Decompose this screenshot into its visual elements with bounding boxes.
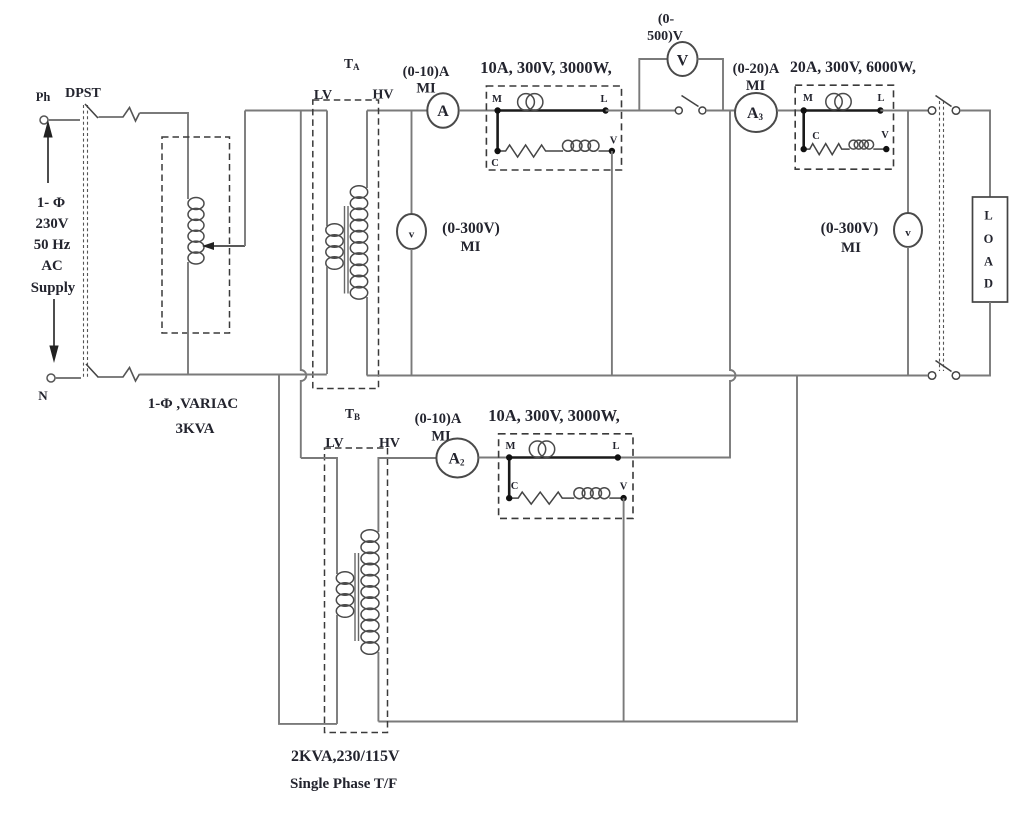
wattmeter W3 inductor to V wire (609, 497, 623, 499)
svg-text:AC: AC (41, 258, 62, 274)
TB LV winding (336, 572, 353, 618)
wattmeter W2 pressure-circuit resistor (804, 144, 850, 155)
wire voltmeter V3 riser bottom (907, 247, 909, 376)
wire TA HV bottom lead to secondary bus (366, 297, 368, 376)
svg-text:3KVA: 3KVA (176, 421, 215, 437)
wire V2 left leg (639, 59, 667, 111)
wire Ph terminal to DPST (48, 119, 80, 121)
switch DPST load-side top contacts (928, 107, 960, 115)
wattmeter W2 current coil M-L line (804, 109, 881, 112)
svg-text:(0-300V): (0-300V) (821, 220, 879, 237)
switch DPST load-side coupling dashed link (940, 101, 944, 371)
TA LV winding (326, 224, 343, 270)
wattmeter W3 dashed enclosure (499, 434, 633, 519)
svg-text:(0-: (0- (658, 12, 675, 27)
arrow down (supply neutral) (50, 299, 58, 361)
wire ammeter A2 to wattmeter W3 M (478, 457, 509, 459)
wire DPST to variac top (140, 113, 189, 199)
svg-text:v: v (905, 227, 911, 239)
voltmeter V1 label (442, 220, 500, 255)
svg-text:Ph: Ph (36, 90, 51, 104)
wattmeter W2 terminal letters (803, 93, 889, 142)
wattmeter W2 inductor to V wire (873, 148, 886, 150)
wire top bus: wiper node to TA LV (245, 110, 327, 112)
transformer TA dashed enclosure (313, 100, 379, 389)
load letters (984, 209, 994, 291)
supply terminal N (38, 374, 55, 403)
svg-text:M: M (803, 93, 813, 104)
wire TA LV bottom lead to neutral bus (326, 267, 328, 374)
TB HV winding (361, 530, 379, 655)
wattmeter W1 pressure coil inductor (563, 140, 600, 151)
supply label 1-Φ 230V 50Hz AC Supply (31, 195, 76, 296)
wire TB HV top lead to ammeter A2 (378, 458, 436, 532)
arrow up (supply phase) (44, 122, 52, 183)
wire switch S2 to ammeter A3 (706, 110, 735, 112)
svg-text:(0-10)A: (0-10)A (415, 411, 462, 427)
svg-text:(0-20)A: (0-20)A (733, 61, 780, 77)
svg-text:N: N (38, 388, 48, 403)
switch DPST coupling dashed link (84, 105, 88, 377)
switch DPST load-side bottom contacts (928, 372, 960, 380)
wire riser neutral bus down to TB LV return (279, 375, 337, 724)
wattmeter W3 terminal dots M L C V (506, 454, 627, 501)
wire neutral bus (N to TA LV) (140, 374, 327, 376)
voltmeter V2 label (0-500)V (647, 12, 683, 44)
wattmeter W3 pressure-circuit resistor (509, 492, 574, 504)
wattmeter W1 current coil loops (518, 94, 543, 111)
wattmeter W3 current coil loops (529, 441, 554, 457)
svg-text:230V: 230V (36, 216, 69, 232)
wire variac wiper to top bus (244, 111, 246, 247)
svg-text:MI: MI (841, 240, 861, 256)
svg-text:C: C (491, 158, 499, 169)
svg-text:M: M (506, 441, 516, 452)
wire voltmeter V1 riser bottom to secondary bus (411, 249, 413, 376)
variac winding coil (188, 198, 204, 265)
svg-text:D: D (984, 277, 993, 291)
wire TB HV return line (378, 376, 797, 722)
wire voltmeter V3 riser top (907, 111, 909, 214)
svg-text:10A, 300V, 3000W,: 10A, 300V, 3000W, (488, 406, 620, 425)
svg-text:L: L (984, 209, 992, 223)
svg-text:V: V (881, 130, 889, 141)
svg-text:MI: MI (746, 78, 766, 94)
wire W1 V terminal riser to secondary bus (611, 151, 613, 376)
svg-text:Single Phase T/F: Single Phase T/F (290, 776, 397, 792)
fuse squiggle (neutral) (99, 368, 140, 382)
svg-text:500)V: 500)V (647, 29, 683, 44)
fuse squiggle (phase) (99, 108, 140, 122)
wire voltmeter V1 riser top (411, 111, 413, 215)
svg-text:10A, 300V, 3000W,: 10A, 300V, 3000W, (480, 58, 612, 77)
wattmeter W3 terminal letters (506, 441, 628, 493)
svg-text:50 Hz: 50 Hz (34, 237, 71, 253)
wattmeter W2 dashed enclosure (795, 85, 893, 169)
TB core (355, 553, 359, 641)
wattmeter W2 pressure coil inductor (849, 140, 874, 149)
svg-text:A: A (437, 103, 449, 120)
ammeter A2 (MI) (436, 439, 478, 478)
svg-text:O: O (984, 232, 994, 246)
svg-text:LV: LV (314, 88, 332, 103)
transformer TB dashed enclosure (325, 448, 388, 733)
svg-text:v: v (409, 229, 415, 241)
voltmeter V3 (0-300V MI) (894, 213, 922, 247)
svg-text:C: C (812, 131, 820, 142)
wire W3 V terminal riser to TB HV return (623, 498, 625, 721)
wattmeter W1 pressure-circuit resistor (498, 145, 563, 157)
svg-text:V: V (677, 53, 689, 70)
switch DPST load-side bottom blade (936, 361, 952, 372)
wire V2 right leg (698, 59, 724, 111)
TA HV winding (350, 186, 367, 299)
voltmeter V2 (0-500V) (668, 42, 698, 76)
voltmeter V1 (0-300V MI) (397, 214, 426, 249)
variac dashed enclosure (162, 137, 230, 333)
wattmeter W3 M-C link (508, 458, 511, 499)
svg-text:Supply: Supply (31, 280, 76, 296)
svg-text:2KVA,230/115V: 2KVA,230/115V (291, 748, 400, 765)
wattmeter W2 terminal dots M L C V (801, 107, 890, 152)
wire W1 L to switch S2 (606, 110, 676, 112)
svg-text:MI: MI (461, 239, 481, 255)
wire load bottom to switch (960, 302, 990, 376)
svg-text:(0-10)A: (0-10)A (403, 64, 450, 80)
wire TA HV to ammeter A (367, 110, 427, 112)
variac label 1-Φ VARIAC 3KVA (148, 396, 239, 437)
ammeter A3 label (0-20)A MI (733, 61, 780, 94)
TB rating label 2KVA,230/115V Single Phase T/F (290, 748, 400, 792)
wattmeter W1 current coil M-L line (498, 109, 606, 112)
svg-text:1- Φ: 1- Φ (37, 195, 65, 211)
wattmeter W2 M-C link (802, 111, 805, 150)
wire TB HV bottom lead (377, 652, 379, 722)
wire TA HV top lead (366, 111, 368, 189)
supply terminal Ph (36, 90, 51, 124)
variac wiper arrow (202, 242, 245, 250)
wire TB LV bottom lead (336, 615, 338, 724)
svg-text:V: V (610, 136, 618, 147)
svg-text:C: C (511, 481, 519, 492)
svg-text:A: A (984, 255, 993, 269)
svg-text:V: V (620, 482, 628, 493)
switch DPST blade (neutral pole) (86, 364, 99, 378)
wire secondary return bus (TA HV to load switch) (367, 375, 928, 377)
switch S2 contacts (675, 107, 706, 114)
wire ammeter A3 to wattmeter W2 M (777, 110, 804, 112)
wattmeter W1 inductor to V wire (599, 150, 612, 152)
wattmeter W1 dashed enclosure (486, 86, 621, 170)
switch DPST blade (phase pole) (85, 104, 98, 118)
svg-text:20A, 300V, 6000W,: 20A, 300V, 6000W, (790, 59, 916, 76)
wire TB primary feed to LV top (301, 458, 337, 574)
svg-text:DPST: DPST (65, 86, 101, 101)
wire switch to load top (960, 111, 990, 198)
switch DPST load-side top blade (936, 96, 952, 107)
svg-text:M: M (492, 94, 502, 105)
wire ammeter A to wattmeter W1 M (459, 110, 498, 112)
voltmeter V3 label (821, 220, 879, 256)
wire riser to TB primary (hops neutral bus) (301, 111, 307, 459)
svg-text:1-Φ ,VARIAC: 1-Φ ,VARIAC (148, 396, 239, 412)
wire TA LV top lead (326, 111, 328, 227)
svg-text:HV: HV (373, 88, 394, 103)
wire W2 L to load switch (880, 110, 928, 112)
load box (973, 197, 1008, 302)
svg-text:L: L (612, 441, 619, 452)
ammeter A (MI) (427, 93, 458, 128)
svg-text:MI: MI (416, 81, 436, 97)
TA core (345, 206, 349, 294)
wattmeter W2 current coil loops (826, 94, 851, 110)
svg-text:L: L (600, 94, 607, 105)
svg-text:(0-300V): (0-300V) (442, 220, 500, 237)
switch S2 blade (682, 96, 699, 107)
wattmeter W3 pressure coil inductor (574, 488, 610, 499)
wire variac coil bottom to neutral bus (187, 262, 189, 375)
wattmeter W1 terminal dots M L C V (494, 107, 615, 154)
ammeter A2 label (0-10)A MI (415, 411, 462, 445)
ammeter A3 (MI) (735, 93, 777, 132)
ammeter A label (0-10)A MI (403, 64, 450, 97)
wire N terminal to DPST (55, 377, 81, 379)
wattmeter W1 terminal letters (491, 94, 618, 169)
wire riser to TB wattmeter L (hops secondary bus) (618, 111, 736, 458)
wattmeter W1 M-C link (496, 111, 499, 152)
svg-text:L: L (877, 93, 884, 104)
wattmeter W3 current coil M-L line (509, 456, 618, 459)
